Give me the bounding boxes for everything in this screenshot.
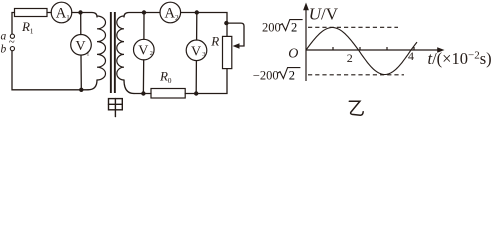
svg-text:U/V: U/V (309, 5, 339, 24)
svg-text:0: 0 (168, 76, 172, 85)
svg-text:1: 1 (86, 50, 89, 57)
svg-text:2: 2 (150, 50, 153, 57)
svg-text:~: ~ (9, 36, 15, 48)
svg-text:2: 2 (347, 51, 353, 65)
svg-text:2: 2 (175, 14, 179, 22)
svg-text:200: 200 (262, 20, 281, 34)
svg-text:A: A (56, 6, 67, 22)
svg-text:A: A (165, 6, 176, 22)
svg-text:V: V (138, 44, 148, 59)
svg-text:1: 1 (66, 14, 70, 22)
svg-text:1: 1 (30, 27, 34, 36)
svg-text:O: O (288, 46, 298, 61)
svg-text:V: V (75, 39, 85, 54)
svg-text:R: R (210, 34, 219, 49)
svg-text:b: b (1, 44, 7, 56)
svg-text:t/(×10−2s): t/(×10−2s) (428, 49, 492, 68)
svg-text:2: 2 (289, 68, 295, 82)
svg-text:R: R (159, 69, 168, 84)
svg-text:2: 2 (291, 20, 297, 34)
svg-text:R: R (21, 19, 30, 34)
svg-text:3: 3 (202, 51, 205, 58)
svg-text:V: V (191, 44, 201, 59)
svg-text:a: a (1, 31, 7, 43)
svg-text:4: 4 (408, 49, 414, 63)
svg-text:−200: −200 (253, 68, 279, 82)
